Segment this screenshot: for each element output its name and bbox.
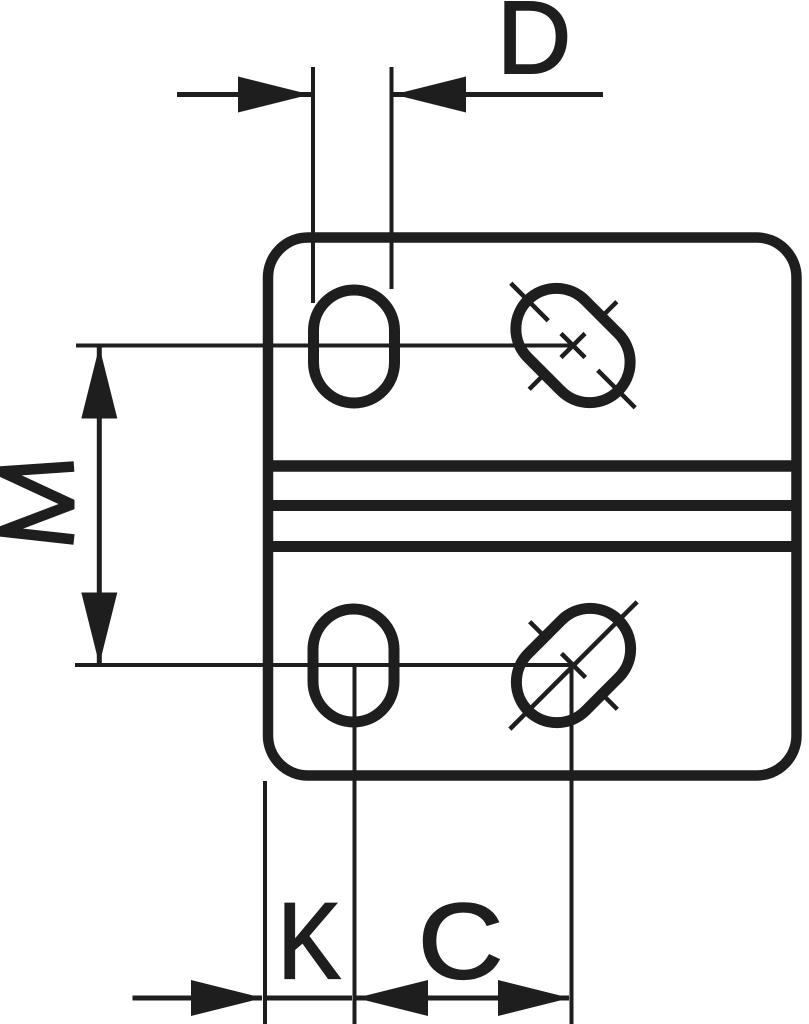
dimension arrow C (498, 980, 570, 1016)
top-right slot side tick left (529, 371, 547, 389)
bottom-right slot axis line (510, 602, 637, 729)
dimension arrow at plate edge (191, 980, 263, 1016)
bottom-right slot side tick right (599, 691, 617, 709)
bottom-right slot side tick left (530, 622, 548, 640)
svg-text:K: K (278, 881, 341, 1001)
hole bottom-right slot (466, 558, 681, 773)
svg-text:D: D (497, 0, 571, 95)
extension line M top (76, 344, 570, 348)
hole top-left oblong (314, 290, 395, 403)
dimension D line left segment (177, 92, 313, 97)
extension line plate left edge (263, 781, 267, 1024)
top-right slot centre cross (561, 333, 585, 357)
extension line D left (311, 67, 315, 303)
dimension bottom line C span (355, 996, 569, 1001)
extension line C (570, 666, 574, 1024)
extension line M bottom (75, 663, 571, 667)
plate outline (268, 238, 797, 776)
groove line 3 (268, 541, 800, 552)
dimension bottom line left tail (133, 996, 263, 1001)
top-right slot side tick right (598, 302, 616, 320)
hole top-right slot (467, 239, 679, 451)
dimension bottom line K span (266, 996, 352, 1001)
top-right slot axis end tick upper (511, 283, 548, 320)
top-right slot axis end tick lower (598, 370, 635, 407)
dimension arrow K (356, 980, 428, 1016)
dimension D arrow right (394, 77, 466, 113)
groove line 1 (268, 460, 800, 472)
groove line 2 (268, 500, 800, 511)
dimension D arrow left (238, 77, 310, 113)
bottom-right slot centre cross stroke (561, 653, 585, 677)
extension line D right (390, 67, 394, 289)
extension line K (353, 666, 357, 1024)
hole bottom-left oblong (313, 609, 394, 722)
dimension M arrow down (81, 593, 117, 665)
svg-text:C: C (418, 881, 503, 1001)
dimension M line (97, 346, 102, 666)
dimension M arrow up (81, 347, 117, 419)
dimension D line right segment (391, 92, 603, 97)
